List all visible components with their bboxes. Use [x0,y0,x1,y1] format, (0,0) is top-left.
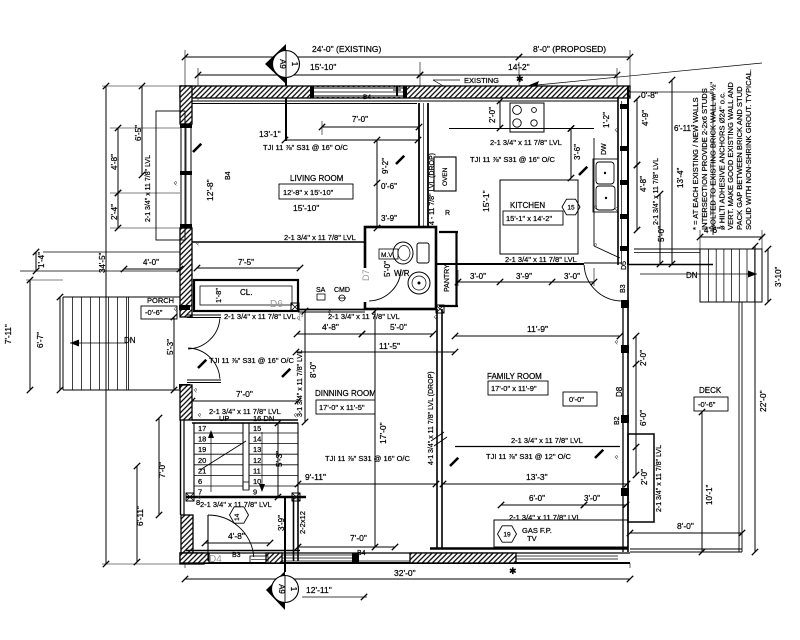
porch stairs DN arrow [70,342,127,344]
svg-text:17'-0" x 11'-9": 17'-0" x 11'-9" [491,384,537,393]
svg-text:2-1 3/4" x 11 7/8" LVL: 2-1 3/4" x 11 7/8" LVL [509,513,581,522]
dim 5'-0" hall [362,333,433,335]
span mark dining right [282,369,290,377]
svg-text:4'-6": 4'-6" [704,226,720,235]
dim 12'-11" [302,596,367,598]
deck stairs DN arrow [640,273,757,275]
svg-text:8'-0": 8'-0" [309,362,318,378]
svg-text:B2: B2 [614,416,621,425]
dim 14'-2" top [420,74,617,76]
stair dn arrow [261,432,263,488]
svg-text:3'-9": 3'-9" [381,214,397,223]
svg-text:2'-0": 2'-0" [488,107,497,123]
svg-text:4'-8": 4'-8" [110,154,119,170]
svg-text:2-1 3/4" x 11 7/8" LVL: 2-1 3/4" x 11 7/8" LVL [656,445,663,512]
hexagon 15 [562,199,580,215]
svg-text:4'-8": 4'-8" [322,322,339,332]
svg-text:2-1 3/4" x 11 7/8" LVL: 2-1 3/4" x 11 7/8" LVL [505,255,577,264]
kitchen counter top edge [449,128,594,130]
stair break diagonal [200,441,246,470]
svg-text:1'-4": 1'-4" [37,252,46,268]
kitchen size box [503,211,563,225]
hexagon 14 [230,507,249,523]
svg-text:7'-5": 7'-5" [238,258,254,267]
dim 2'-0" stove (rotated) [499,101,501,128]
section marker A9 top [265,44,300,84]
svg-text:DN: DN [686,271,698,280]
dim 13'-4" (rotated) [671,80,673,264]
svg-text:7'-0": 7'-0" [352,115,368,124]
elevation box 0'-0" [563,392,597,406]
dim 6'-7" porch stairs [59,297,61,390]
washroom door arc D7 [369,269,401,301]
dim 8'-0" (rotated) [304,311,306,422]
svg-text:15'-1": 15'-1" [481,190,491,212]
svg-text:13: 13 [253,445,261,454]
porch french doors [187,314,221,316]
bay window protrusion rect top-left [156,111,185,240]
span mark left living [193,144,201,152]
svg-text:DW: DW [601,143,608,155]
svg-text:8'-0": 8'-0" [677,521,694,531]
svg-text:34'-5": 34'-5" [98,252,107,273]
dim 3'-6" vertical line [570,129,572,179]
dim 15'-10" top [198,74,420,76]
svg-text:ø HILTI ADHESIVE ANCHORS Ø24": ø HILTI ADHESIVE ANCHORS Ø24" o.c. [717,92,726,230]
wall right upper (existing brick) [627,86,629,265]
svg-text:TJI 11 ⅞" S31 @ 12" O/C: TJI 11 ⅞" S31 @ 12" O/C [486,452,572,461]
dim 13'-3" family [443,483,627,485]
svg-text:20: 20 [198,456,206,465]
dim 7'-11" porch [29,280,31,390]
porch roof lines left [43,251,180,253]
svg-text:14: 14 [234,513,241,521]
fireplace box [494,520,628,547]
svg-text:M.V: M.V [381,252,393,259]
svg-text:1'-8": 1'-8" [214,288,223,303]
post with X at D6 [291,303,299,311]
dim 3'-0" fireplace [584,504,626,506]
svg-text:PANTRY: PANTRY [444,264,451,292]
svg-text:SA: SA [316,287,326,294]
svg-text:* = AT EACH EXISTING / NEW WAL: * = AT EACH EXISTING / NEW WALLS [691,97,700,230]
svg-text:B4: B4 [357,550,366,557]
svg-text:7'-0": 7'-0" [236,389,253,399]
svg-text:D6: D6 [270,299,283,310]
hexagon 19 [498,526,517,542]
dim 7'-0" living right [322,126,419,128]
svg-text:7'-0": 7'-0" [158,462,167,478]
family size box [488,381,548,395]
svg-text:6'-11": 6'-11" [674,124,694,133]
svg-text:DN: DN [124,336,136,345]
porch elevation box -0'-6" [141,306,177,319]
chimney bump-out on deck [628,434,654,522]
dim 8'-0" deck bottom [630,532,742,534]
living interior dim line vertical [376,140,378,228]
wall left: porch door opening posts [179,305,190,310]
svg-text:1'-2": 1'-2" [602,112,611,128]
svg-text:3'-9": 3'-9" [516,272,532,281]
kitchen door B3 leaf+arc [584,262,622,264]
dim 2'-4" left [117,193,119,228]
kitchen bottom wall beam [436,263,584,265]
dim 32'-0" bottom [185,578,630,580]
M.V box [379,249,398,259]
svg-text:6'-5": 6'-5" [134,125,143,141]
stove [510,103,544,132]
svg-text:B4: B4 [225,171,232,180]
svg-text:1: 1 [289,587,298,592]
svg-text:3'-10": 3'-10" [774,266,783,287]
svg-text:5'-0": 5'-0" [657,226,666,242]
dining size box [316,400,375,414]
svg-text:2'-4": 2'-4" [110,204,119,220]
svg-text:16 DN: 16 DN [253,414,274,423]
hold-down symbol top wall [396,86,398,96]
svg-text:TJI 11 ⅞" S31 @ 16" O/C: TJI 11 ⅞" S31 @ 16" O/C [470,155,556,164]
svg-text:4'-8": 4'-8" [228,531,245,541]
svg-text:✱: ✱ [509,566,517,576]
svg-text:2-2x12: 2-2x12 [298,511,307,534]
window top wall [312,87,405,97]
divider beam dining/family [436,309,438,548]
svg-text:14: 14 [253,435,261,444]
svg-text:UP: UP [219,414,229,423]
svg-text:3'-0": 3'-0" [584,494,600,503]
dim 13'-1" living [285,139,418,141]
svg-text:7'-0": 7'-0" [350,533,367,543]
svg-text:5'-3": 5'-3" [275,451,284,467]
kitchen island [500,180,578,254]
svg-text:9: 9 [253,488,257,497]
beam line living bottom [192,241,365,243]
svg-text:D4: D4 [209,554,222,565]
svg-text:CMD: CMD [334,287,350,294]
svg-text:0'-0": 0'-0" [569,395,584,404]
svg-text:4 - 11 7/8" LVL (DROP): 4 - 11 7/8" LVL (DROP) [429,153,436,225]
dim 6'-0" fireplace [501,504,584,506]
svg-text:R: R [445,210,450,217]
dim 22'-0" deck (rotated) [754,246,756,552]
dim 24'-0" (EXISTING) top [185,56,519,58]
stair treads [194,432,243,434]
dim 7'-0" bottom right of stairs [298,546,395,548]
family right dims 2-0 6-0 2-0 (rotated) [635,336,637,475]
svg-text:2'-0": 2'-0" [639,350,648,366]
divider wall living/kitchen (dropped beam) [418,103,420,227]
wall corner bottom-left (hatched) [180,553,204,564]
svg-text:4'-0": 4'-0" [143,258,159,267]
dim 4'-8" hall [297,333,362,335]
kitchen right counter [593,138,595,246]
toilet [417,243,429,263]
span mark family right [595,450,603,458]
svg-text:2-1 3/4" x 11 7/8" LVL: 2-1 3/4" x 11 7/8" LVL [328,312,400,321]
porch exterior stairs [72,297,74,390]
washroom walls [365,227,436,309]
svg-text:2-1 3/4" x 11 7/8" LVL: 2-1 3/4" x 11 7/8" LVL [490,138,562,147]
wall hallway y310 [298,309,365,311]
dim 11'-9" family [455,335,620,337]
right wall posts lower [621,300,629,308]
door D4 leaf and arc [207,515,209,561]
svg-text:2-1 3/4" x 11 7/8" LVL: 2-1 3/4" x 11 7/8" LVL [511,436,583,445]
svg-text:FAMILY ROOM: FAMILY ROOM [487,372,542,381]
svg-text:12'-8" x 15'-10": 12'-8" x 15'-10" [283,188,334,197]
svg-text:6'-7": 6'-7" [36,332,45,348]
svg-text:6: 6 [198,477,202,486]
svg-text:5'-0": 5'-0" [383,261,392,277]
dim 5'-3" porch door [173,317,175,390]
svg-text:5'-3": 5'-3" [166,339,175,355]
threshold door D4a [250,556,268,563]
stud pairs right wall [620,104,628,109]
svg-text:15'-10": 15'-10" [310,62,336,72]
bottom thin wall lines [282,554,352,556]
svg-text:1: 1 [290,62,299,67]
svg-text:11'-9": 11'-9" [527,324,548,334]
svg-text:22'-0": 22'-0" [758,390,768,412]
svg-text:B4: B4 [363,94,371,101]
svg-text:15: 15 [567,204,575,211]
svg-text:17'-0" x 11'-5": 17'-0" x 11'-5" [319,403,365,412]
svg-text:6'-0": 6'-0" [529,494,545,503]
dim 4'-8" bottom [205,542,270,544]
svg-text:SOLID WITH NON-SHRINK GROUT. T: SOLID WITH NON-SHRINK GROUT. TYPICAL. [744,69,753,230]
left extension lines [110,127,180,129]
svg-text:4'-9": 4'-9" [641,110,650,126]
svg-text:3'-0": 3'-0" [470,272,486,281]
bottom hatch segments [180,553,209,563]
basin [408,272,430,294]
porch platform outline [63,296,180,298]
svg-text:17'-0": 17'-0" [378,422,388,444]
washroom door opening (white) [363,268,368,302]
kitchen wall line extension right [628,264,713,266]
dim 6'-11" left (rotated) [136,466,138,562]
svg-text:15: 15 [253,424,261,433]
deck right edge [738,302,740,552]
svg-text:7'-11": 7'-11" [4,324,13,344]
dim 17'-0" dining (rotated) [374,311,376,547]
svg-text:15'-10": 15'-10" [293,203,319,213]
svg-text:3'-0": 3'-0" [564,272,580,281]
svg-text:2-1 3/4" x 11 7/8" LVL: 2-1 3/4" x 11 7/8" LVL [145,155,152,222]
svg-text:LIVING ROOM: LIVING ROOM [290,174,344,183]
svg-text:TJI 11 ⅞" S31 @ 16" O/C: TJI 11 ⅞" S31 @ 16" O/C [209,356,295,365]
svg-text:OVEN: OVEN [442,167,449,186]
wall left: hatched mid [180,228,192,317]
svg-text:D8: D8 [615,386,624,397]
svg-text:W/R: W/R [394,269,410,278]
svg-text:PACK GAP BETWEEN BRICK AND STU: PACK GAP BETWEEN BRICK AND STUD [735,86,744,230]
family room floor edge thick line [430,547,628,549]
svg-text:13'-1": 13'-1" [259,129,281,139]
dim 34'-5" left full height [105,86,107,564]
wall top inner face lines [192,100,618,102]
svg-text:19: 19 [198,445,206,454]
svg-text:18: 18 [198,435,206,444]
dim 8'-0" (PROPOSED) top [519,56,630,58]
post P3 bottom of pantry [436,305,444,313]
dim 4'-6" deck stairs [700,236,762,238]
svg-text:11'-5": 11'-5" [379,341,400,351]
svg-text:0'-8": 0'-8" [641,90,658,100]
section cut line top [285,78,287,141]
svg-text:TJI 11 ⅞" S31 @ 16" O/C: TJI 11 ⅞" S31 @ 16" O/C [263,143,349,152]
wall left: hatched upper [180,86,192,124]
svg-text:DINNING ROOM: DINNING ROOM [315,389,376,398]
svg-text:2-1 3/4" x 11 7/8" LVL: 2-1 3/4" x 11 7/8" LVL [200,500,272,509]
wall right lower (family room) [627,265,629,552]
stair bottom beam [186,496,306,499]
svg-text:4'-8": 4'-8" [639,176,648,192]
svg-text:CL.: CL. [240,288,252,297]
svg-text:B3: B3 [620,284,627,293]
svg-text:4-1 3/4" x 11 7/8" LVL (DROP): 4-1 3/4" x 11 7/8" LVL (DROP) [428,371,435,465]
kitchen cabinet dims [458,281,594,283]
stairs center divider [242,423,244,490]
dim 4'-0" porch [124,268,180,270]
svg-text:-0'-6": -0'-6" [698,400,716,409]
svg-text:5'-0": 5'-0" [390,322,407,332]
svg-text:D5: D5 [621,261,628,270]
svg-text:B3: B3 [232,552,241,559]
wall top exterior (hatched) [180,86,630,98]
svg-text:19: 19 [503,531,511,538]
svg-text:32'-0": 32'-0" [394,568,416,578]
span mark kitchen right [579,167,587,175]
deck top rail [634,248,762,250]
svg-text:12'-8": 12'-8" [205,179,215,201]
stair room right wall [293,497,295,561]
svg-text:✱: ✱ [516,74,524,84]
svg-text:13'-3": 13'-3" [526,472,548,482]
svg-text:VERT. MAKE GOOD EXISTING WALL: VERT. MAKE GOOD EXISTING WALL AND [726,82,735,230]
span mark dining left [198,360,206,368]
svg-text:2-1 3/4" x 11 7/8" LVL: 2-1 3/4" x 11 7/8" LVL [653,158,660,225]
wall bottom band [180,552,630,554]
svg-text:0'-6": 0'-6" [381,182,397,191]
svg-text:D7: D7 [361,269,371,281]
svg-text:2-1 3/4" x 11 7/8" LVL: 2-1 3/4" x 11 7/8" LVL [224,312,296,321]
svg-text:A9: A9 [278,59,287,69]
section marker A9 bottom [266,497,299,610]
svg-text:24'-0" (EXISTING): 24'-0" (EXISTING) [312,44,382,54]
dim 7'-0" upper of stair room [192,400,298,402]
stair room top wall [192,419,298,421]
wall left: window section [180,124,182,228]
svg-text:EXISTING: EXISTING [464,76,499,85]
svg-text:INTERSECTION PROVIDE 2-2x6 ST: INTERSECTION PROVIDE 2-2x6 STUDS [700,88,709,230]
closet CL walls [194,280,298,311]
wall left: hatched bottom [181,515,193,563]
oven cabinet [434,157,456,191]
dim 3'-10" deck stairs (rotated) [767,249,769,302]
wall left: hatched below porch [180,385,192,420]
deck stairs [700,249,762,302]
span mark family left [450,458,458,466]
svg-text:DECK: DECK [699,386,722,395]
deck bottom edge [630,548,742,550]
living room size box [279,184,353,199]
dim 7'-0" stair left (rotated) [158,418,160,515]
right zone outline [712,92,714,235]
dim 11'-5" dining width [296,351,455,353]
svg-text:12: 12 [253,456,261,465]
note leader diagonal [527,63,762,86]
span mark right living [396,156,404,164]
svg-text:9'-11": 9'-11" [305,472,326,482]
svg-text:TV: TV [527,534,537,543]
dim 5'-3" stair (rotated) [277,423,279,497]
svg-text:-0'-6": -0'-6" [145,308,163,317]
svg-text:21: 21 [198,466,206,475]
dim 6'-5" left [141,86,143,175]
svg-text:6'-11": 6'-11" [136,506,145,526]
dim 7'-5" closet [197,267,300,269]
svg-text:17: 17 [198,424,206,433]
svg-text:8'-0" (PROPOSED): 8'-0" (PROPOSED) [533,44,606,54]
deck elevation box -0'-6" [694,397,728,411]
wall left: thin lower section [180,420,182,515]
svg-text:KITCHEN: KITCHEN [510,201,545,210]
svg-text:2'-0": 2'-0" [640,469,649,485]
svg-text:A9: A9 [277,584,286,594]
pantry walls [439,231,458,233]
beam break marks [431,432,444,441]
svg-text:3-1 3/4" x 11 7/8" LVL: 3-1 3/4" x 11 7/8" LVL [297,350,304,417]
svg-text:13'-4": 13'-4" [676,167,685,188]
svg-text:6'-0": 6'-0" [639,410,648,426]
svg-text:TJI 11 ⅞" S31 @ 16" O/C: TJI 11 ⅞" S31 @ 16" O/C [325,454,411,463]
svg-text:3'-6": 3'-6" [573,144,582,160]
dim 10'-1" deck (rotated) [701,412,703,552]
dim 4'-8" left [117,128,119,193]
svg-text:PORCH: PORCH [147,296,174,305]
dim 9'-11" [298,483,436,485]
dim 1'-4" [35,252,37,271]
right dim chain 4'-9" 4'-8" [636,99,638,165]
bottom wall post [352,553,359,563]
svg-text:15'-1" x 14'-2": 15'-1" x 14'-2" [506,214,552,223]
svg-text:12'-11": 12'-11" [306,585,332,595]
svg-text:10'-1": 10'-1" [705,484,714,505]
dim 5'-0" right (rotated) [659,194,661,264]
stair up arrow [210,434,212,492]
svg-text:9'-2": 9'-2" [381,158,390,174]
stairs box [194,423,298,497]
svg-text:2-1 3/4" x 11 7/8" LVL: 2-1 3/4" x 11 7/8" LVL [284,233,356,242]
kitchen sink double [593,159,618,212]
extension lines top [184,50,186,86]
svg-text:11: 11 [253,466,261,475]
